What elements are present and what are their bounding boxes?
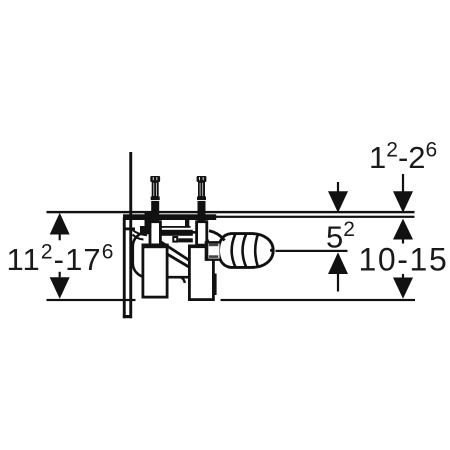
corrugated cylinder — [219, 234, 274, 268]
bolt1 sleeve — [150, 222, 160, 245]
wall line — [129, 152, 132, 318]
bottom line right segment — [221, 299, 416, 301]
corrugation arc 1 — [232, 234, 236, 268]
arm curve to cylinder — [209, 231, 225, 241]
strut upper edge — [155, 238, 191, 262]
bracket drop left of bolt1 — [145, 212, 152, 227]
strut lower edge — [152, 245, 189, 267]
clip box — [173, 237, 177, 242]
svg-text:112-176: 112-176 — [7, 241, 115, 278]
diagonal strut white band — [152, 238, 191, 267]
bolt 1 — [150, 176, 160, 221]
clip bar — [178, 238, 193, 242]
middle axis line — [276, 250, 348, 252]
cap dot — [270, 249, 273, 252]
dim 10-15 up arrow — [393, 219, 413, 244]
dim 5 down arrow — [328, 182, 348, 213]
rough-wall line right — [216, 216, 415, 218]
right block — [189, 246, 213, 300]
cap edge arc — [255, 234, 258, 267]
face divider — [185, 220, 189, 227]
dim 1-2 down arrow — [393, 174, 413, 213]
left block — [143, 245, 167, 297]
capsule housing — [133, 232, 209, 277]
face lower edge — [160, 226, 191, 228]
svg-text:10-15: 10-15 — [359, 242, 449, 278]
left block top bar — [142, 244, 169, 249]
nozzle thick edge — [205, 241, 209, 260]
mounting plate line — [123, 218, 126, 319]
right block top bar — [188, 245, 215, 249]
bracket ledge — [125, 228, 135, 231]
dim 5 up arrow — [328, 252, 348, 291]
nozzle thread band bottom — [209, 255, 219, 258]
top finished-wall line — [47, 211, 415, 213]
nozzle thread band top — [209, 244, 219, 247]
mounting rail — [123, 214, 216, 220]
dim 10-15 down arrow — [393, 274, 413, 299]
bottom line left segment — [47, 299, 136, 301]
bracket corner block — [140, 226, 150, 234]
connector nozzle — [206, 242, 219, 259]
housing outlet arc — [181, 277, 185, 283]
capsule top bar — [154, 230, 193, 236]
down pipe — [212, 274, 216, 296]
bracket inner arc — [133, 230, 148, 235]
bolt 2 — [197, 176, 207, 221]
rail face white — [131, 220, 216, 232]
plate bottom join — [123, 315, 132, 318]
dim 11-17 up arrow — [50, 213, 70, 241]
bolt2 sleeve — [197, 222, 207, 245]
dim 11-17 down arrow — [50, 272, 70, 299]
corrugation arc 2 — [243, 234, 247, 268]
